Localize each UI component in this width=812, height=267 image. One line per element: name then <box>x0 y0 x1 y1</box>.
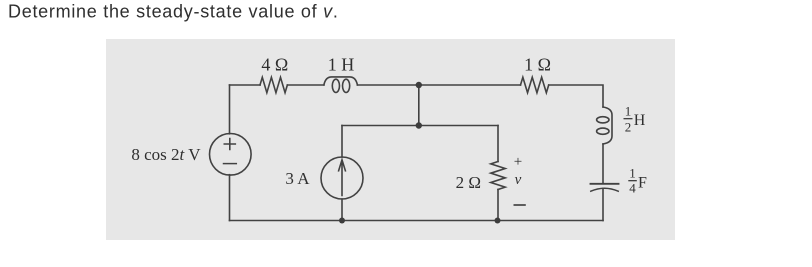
svg-text:Determine the steady-state val: Determine the steady-state value of v. <box>8 2 339 22</box>
wire 2ohm to bottom <box>497 190 499 221</box>
svg-text:2 Ω: 2 Ω <box>456 173 481 192</box>
voltage source V circle <box>210 134 252 176</box>
svg-text:v: v <box>515 172 522 188</box>
wire middle horizontal <box>342 125 498 127</box>
junction node D bottom 2ohm <box>495 218 501 224</box>
wire capacitor to bottom-right corner <box>602 189 604 221</box>
svg-text:1 H: 1 H <box>328 55 355 75</box>
resistor 2ohm zigzag <box>491 162 505 190</box>
resistor 4ohm zigzag <box>260 77 287 92</box>
wire 1ohm to top-right corner <box>549 85 603 107</box>
svg-text:3 A: 3 A <box>285 169 310 188</box>
capacitor quarter-F top plate <box>591 183 619 185</box>
wire bottom <box>230 220 604 222</box>
svg-text:1: 1 <box>629 166 636 181</box>
svg-text:H: H <box>634 112 646 129</box>
wire between 4ohm and 1H <box>287 84 324 86</box>
wire middle to 2ohm <box>497 126 499 162</box>
wire top-left horizontal <box>230 84 261 86</box>
label minus polarity <box>514 204 526 206</box>
svg-text:+: + <box>514 154 522 170</box>
svg-text:1 Ω: 1 Ω <box>524 55 551 75</box>
svg-text:1: 1 <box>625 104 632 119</box>
svg-text:4: 4 <box>629 181 636 196</box>
voltage source plus sign <box>224 139 235 150</box>
current source arrow <box>339 160 346 196</box>
svg-text:2: 2 <box>625 119 632 134</box>
wire 1H to node A <box>357 84 418 86</box>
wire node A to 1ohm <box>419 84 521 86</box>
wire current source to bottom <box>341 199 343 221</box>
junction node B <box>416 122 422 128</box>
svg-text:F: F <box>638 175 647 192</box>
wire left vertical upper <box>229 85 231 134</box>
voltage source minus sign <box>224 163 237 165</box>
wire middle to current source <box>341 126 343 158</box>
junction node A <box>416 82 422 88</box>
wire node A down to node B <box>418 85 420 126</box>
inductor 1H coil <box>324 77 358 85</box>
capacitor quarter-F curved plate <box>591 188 618 191</box>
junction node C bottom current source <box>339 218 345 224</box>
background panel <box>106 39 675 240</box>
svg-text:8 cos 2t V: 8 cos 2t V <box>131 145 201 164</box>
current source 3A circle <box>321 157 363 199</box>
wire inductor to capacitor <box>602 144 604 184</box>
inductor half-H coil <box>603 107 612 144</box>
wire left vertical lower <box>229 175 231 221</box>
svg-text:4 Ω: 4 Ω <box>261 55 288 75</box>
resistor 1ohm zigzag <box>521 77 549 92</box>
